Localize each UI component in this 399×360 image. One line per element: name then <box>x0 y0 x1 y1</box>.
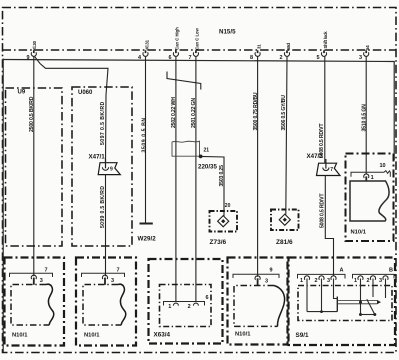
svg-text:Can C Low: Can C Low <box>195 27 200 49</box>
junction dot B1/link <box>359 301 362 304</box>
svg-text:2: 2 <box>367 278 370 284</box>
connector sleeve Z81/6 <box>271 210 299 247</box>
bottom box 2 N10/1 <box>76 258 136 346</box>
switch wire from A3 <box>334 279 338 299</box>
pin 3 socket (box4) <box>255 276 260 280</box>
pin 1 contact <box>173 303 178 306</box>
pin 5 <box>317 31 328 61</box>
wire pin 4 to ground <box>145 57 147 223</box>
pin 7 <box>189 27 200 60</box>
wire pin 5 down to X47/1 right <box>324 57 326 164</box>
switch internal link A1-A2-actuator <box>307 311 337 313</box>
svg-text:X63/4: X63/4 <box>154 332 171 339</box>
svg-text:9: 9 <box>27 55 30 61</box>
svg-text:1: 1 <box>300 278 303 284</box>
switch lower wire B1-pivot <box>361 314 375 316</box>
connector bracket 6 <box>164 302 205 306</box>
svg-text:X47/1: X47/1 <box>89 154 106 161</box>
svg-text:3: 3 <box>265 279 268 285</box>
link arrow <box>377 300 381 304</box>
svg-text:3500 0.75 RD/BU: 3500 0.75 RD/BU <box>253 92 259 130</box>
pin 3 <box>359 45 370 61</box>
svg-text:6: 6 <box>169 55 172 61</box>
svg-text:Kl.31: Kl.31 <box>144 39 149 49</box>
box U060 <box>72 87 132 246</box>
svg-text:Can C High: Can C High <box>175 27 180 50</box>
svg-text:5: 5 <box>317 55 320 61</box>
right N10/1 dash-dot box <box>346 154 394 242</box>
X63/4 inner connector box <box>160 285 212 327</box>
svg-text:W29/2: W29/2 <box>138 236 157 243</box>
connector bracket 7 (box1) <box>10 273 53 277</box>
connector bracket B <box>353 274 395 278</box>
switch wire from A1 <box>306 279 308 312</box>
box U9 <box>6 88 63 246</box>
svg-text:5008 0.5 RD/VT: 5008 0.5 RD/VT <box>320 193 326 228</box>
svg-text:3506 0.5 GY/BU: 3506 0.5 GY/BU <box>281 95 287 131</box>
svg-text:9: 9 <box>270 268 273 274</box>
svg-text:N10/1: N10/1 <box>12 333 28 339</box>
switch wire from B2 <box>372 279 374 298</box>
switch wire from B1 <box>360 279 362 315</box>
connector bracket 7 (box2) <box>82 273 125 277</box>
svg-text:7: 7 <box>189 55 192 61</box>
inner component outline N10/1 (box1) <box>11 285 49 326</box>
switch actuator bar <box>336 297 338 312</box>
inner switch box <box>298 286 392 321</box>
connector bracket (right N10/1) <box>351 171 390 177</box>
svg-text:U060: U060 <box>78 90 93 96</box>
svg-text:X47/1: X47/1 <box>307 153 324 160</box>
wire pin 3 to right N10/1 <box>365 57 367 175</box>
svg-text:B: B <box>389 268 393 274</box>
svg-text:N15/5: N15/5 <box>219 29 236 36</box>
pin A3 socket <box>331 276 336 280</box>
svg-text:3509 0.5 BN: 3509 0.5 BN <box>142 117 148 152</box>
svg-text:8: 8 <box>250 55 253 61</box>
svg-text:N10/1: N10/1 <box>235 332 251 338</box>
twisted pair symbol <box>167 72 201 90</box>
svg-text:2502 0.22 WH: 2502 0.22 WH <box>171 97 177 128</box>
wire pin 8 to box4 <box>257 57 259 277</box>
connector bracket A <box>298 274 346 278</box>
switch wire from B3 <box>385 279 387 299</box>
connector X47/1 (right) <box>307 153 341 176</box>
wire below X47/1 to box2 <box>105 175 107 277</box>
pin A1 socket <box>304 276 309 280</box>
wire pin9 down to N10/1 box1 <box>33 57 35 277</box>
svg-text:2500 0.5 BK/RD: 2500 0.5 BK/RD <box>29 96 35 132</box>
wire X47/1 to S9/1 A3 <box>325 176 333 277</box>
svg-text:3: 3 <box>40 278 43 284</box>
connector sleeve Z73/6 <box>210 211 238 246</box>
pin 8 <box>250 44 261 61</box>
svg-text:10: 10 <box>380 163 386 169</box>
svg-text:Shift lock: Shift lock <box>323 31 328 49</box>
svg-text:S9/1: S9/1 <box>296 332 309 339</box>
pin 3 socket (box2) <box>102 275 107 279</box>
inner solid box with wavy right edge <box>350 181 389 221</box>
wire pin 2 to Z81/6 <box>286 57 287 215</box>
svg-text:2: 2 <box>188 304 191 310</box>
svg-text:3: 3 <box>327 278 330 284</box>
svg-text:3510 0.5 GN: 3510 0.5 GN <box>361 104 367 132</box>
svg-text:7: 7 <box>117 268 120 274</box>
pin B3 socket <box>383 276 388 280</box>
pin 2 contact <box>193 303 198 306</box>
svg-text:3: 3 <box>111 278 114 284</box>
bottom box 5 S9/1 <box>289 258 396 346</box>
shield box 220/35 <box>172 141 217 170</box>
svg-text:3: 3 <box>359 55 362 61</box>
svg-text:Z81/6: Z81/6 <box>276 239 293 246</box>
svg-text:N10/1: N10/1 <box>84 333 100 339</box>
connector X47/1 (left, in U060) <box>89 154 121 175</box>
pivot dot <box>373 313 376 316</box>
CAN wires pins 6,7 <box>175 57 177 302</box>
op bottom border of N05/5 <box>3 49 397 51</box>
pin B1 socket <box>358 276 363 280</box>
svg-text:6: 6 <box>206 295 209 301</box>
bottom box 1 N10/1 <box>5 258 65 346</box>
svg-text:220/35: 220/35 <box>198 164 217 171</box>
pin B2 socket <box>370 276 375 280</box>
svg-text:Kl.30: Kl.30 <box>32 40 37 50</box>
junction dot B1 lower <box>359 313 362 316</box>
solid inner frame line <box>2 59 4 353</box>
switch contact blade <box>367 299 375 314</box>
mechanical link line upper <box>337 299 377 301</box>
svg-text:3503 0.25: 3503 0.25 <box>219 165 225 187</box>
pin 3 socket (box1) <box>31 275 36 279</box>
svg-text:21: 21 <box>204 148 210 154</box>
switch wire from A2 <box>321 279 323 312</box>
bottom box 3 X63/4 <box>149 259 223 344</box>
svg-text:N10/1: N10/1 <box>351 230 367 236</box>
wire branch pin9 to U060 <box>35 57 108 163</box>
wire solid top line <box>3 60 394 161</box>
junction dot shield <box>199 155 203 159</box>
svg-text:1: 1 <box>168 304 171 310</box>
svg-text:3: 3 <box>379 278 382 284</box>
inner component outline N10/1 (box2) <box>83 285 121 326</box>
pin 2 <box>280 43 291 61</box>
pin A2 socket <box>319 276 324 280</box>
junction dot A2 <box>320 310 323 313</box>
shield wire to Z73/6 <box>201 156 224 216</box>
svg-text:2501 0.22 GN: 2501 0.22 GN <box>191 98 197 128</box>
svg-text:9: 9 <box>110 167 113 173</box>
pin 9 <box>27 40 38 60</box>
svg-text:A: A <box>340 268 344 274</box>
svg-text:2: 2 <box>315 278 318 284</box>
svg-text:U9: U9 <box>18 90 26 96</box>
svg-text:20: 20 <box>225 203 231 209</box>
svg-text:1: 1 <box>354 278 357 284</box>
svg-text:5099 0.5 BK/RD: 5099 0.5 BK/RD <box>100 186 106 228</box>
pin 6 <box>169 27 180 61</box>
svg-text:58d: 58d <box>286 43 291 50</box>
svg-text:Z73/6: Z73/6 <box>210 239 227 246</box>
pin 4 <box>138 39 149 60</box>
connector bracket 9 (box4) <box>233 274 279 278</box>
ground W29/2 <box>140 223 153 225</box>
svg-text:7: 7 <box>45 268 48 274</box>
bottom box 4 N10/1 <box>228 258 288 345</box>
mechanical link line lower <box>337 303 377 305</box>
pin 1 socket <box>364 174 369 178</box>
svg-text:5097 0.5 BK/RD: 5097 0.5 BK/RD <box>100 101 106 145</box>
svg-text:7: 7 <box>330 167 333 173</box>
inner component outline N10/1 (box4) <box>234 286 278 327</box>
svg-text:2: 2 <box>280 55 283 61</box>
